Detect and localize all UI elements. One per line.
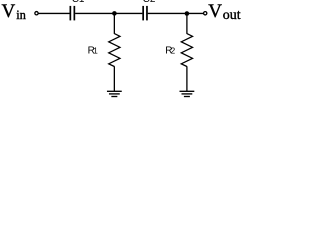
wire node A down to R1 bbox=[113, 13, 115, 34]
svg-text:C2: C2 bbox=[143, 0, 156, 5]
node Vout label bbox=[208, 1, 240, 23]
label R2 bbox=[165, 45, 175, 56]
ground (below R2) bbox=[180, 91, 195, 96]
wire from Vin terminal to C1 bbox=[38, 12, 69, 14]
svg-text:2: 2 bbox=[171, 46, 176, 55]
capacitor C2 bbox=[143, 6, 147, 21]
wire from C2 to Vout terminal through node B bbox=[148, 12, 204, 14]
junction node B bbox=[185, 11, 190, 16]
svg-text:C1: C1 bbox=[72, 0, 85, 5]
wire R1 to ground bbox=[113, 66, 115, 91]
svg-text:V: V bbox=[2, 1, 16, 22]
resistor R1 bbox=[109, 34, 120, 67]
svg-text:out: out bbox=[223, 8, 241, 23]
svg-text:in: in bbox=[16, 8, 26, 22]
svg-text:1: 1 bbox=[93, 46, 98, 55]
terminal circle Vin bbox=[35, 12, 38, 15]
wire from C1 to C2 through node A bbox=[75, 12, 142, 14]
svg-text:V: V bbox=[208, 1, 222, 22]
junction node A bbox=[112, 11, 117, 16]
label C1 (cut off at top edge) bbox=[72, 0, 85, 5]
wire R2 to ground bbox=[186, 66, 188, 91]
node Vin label bbox=[2, 1, 27, 22]
ground (below R1) bbox=[107, 91, 122, 96]
resistor R2 bbox=[181, 34, 192, 67]
wire node B down to R2 bbox=[186, 14, 188, 34]
capacitor C1 bbox=[70, 6, 74, 21]
label R1 bbox=[88, 45, 99, 56]
terminal circle Vout bbox=[204, 12, 207, 15]
label C2 (cut off at top edge) bbox=[143, 0, 156, 5]
